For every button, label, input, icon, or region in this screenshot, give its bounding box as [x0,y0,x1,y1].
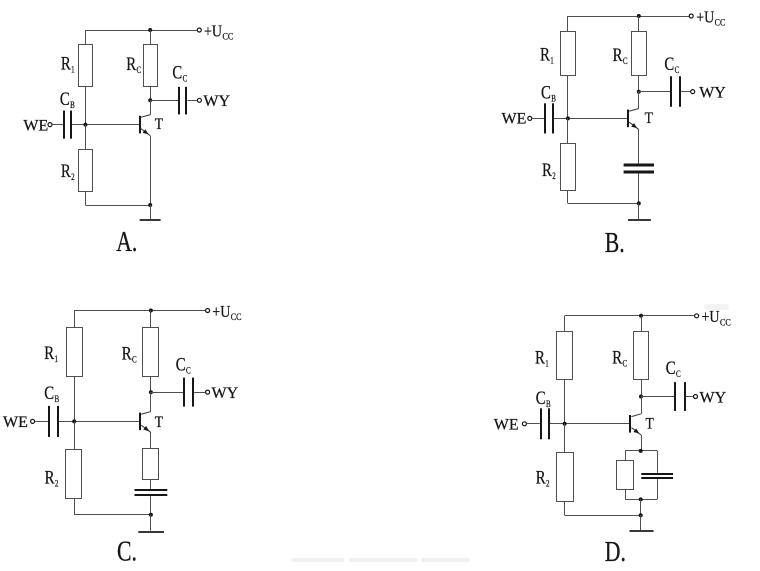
wire: parallel combo to bottom rail (D) [640,499,642,515]
transistor T (C): emitter stroke [141,425,151,432]
svg-text:WE: WE [23,117,48,134]
junction: emitter / bottom rail (B) [637,201,641,205]
svg-text:T: T [155,414,163,431]
svg-text:D.: D. [605,535,626,566]
wire: R1 bottom to base node (A) [85,86,87,125]
svg-text:C.: C. [117,534,137,566]
faint watermark remnant at bottom edge [292,558,470,562]
junction: top rail / Rc (B) [637,14,641,18]
svg-text:WY: WY [699,84,726,101]
junction: RE/CE top node (D) [639,449,643,453]
wire: Cc to WY terminal (A) [187,100,197,102]
resistor R2 (B) [561,144,576,191]
transistor T (B): base bar [627,110,629,128]
terminal +Ucc (A) [197,28,201,32]
wire: CE to bottom of parallel (D) [657,479,659,499]
transistor T (B): collector stroke [629,109,639,112]
ground (B) [628,219,651,221]
junction: collector node (D) [639,395,643,399]
wire: bottom rail to ground (B) [638,203,640,219]
wire: WE to Cb (C) [35,421,49,423]
junction: top rail / Rc (A) [148,28,152,32]
capacitor Cc (D) [674,382,676,411]
svg-text:B.: B. [605,226,625,259]
terminal +Ucc (C) [206,309,210,313]
resistor R1 (D) [557,332,573,380]
terminal WE (A) [48,123,52,127]
wire: right branch to CE (D) [657,451,659,473]
svg-text:T: T [645,110,653,127]
wire: emitter to RE (C) [150,433,152,449]
svg-text:WE: WE [502,111,527,128]
wire: top supply rail (A) [85,30,87,44]
wire: top supply rail (D) [564,316,566,332]
transistor T (C): collector stroke [141,412,151,415]
junction: collector node (A) [148,98,152,102]
capacitor CE (D) [641,473,673,475]
junction: base node (A) [83,123,87,127]
wire: R2 bottom to bottom rail (C) [74,499,76,515]
svg-text:WY: WY [700,389,727,406]
wire: WE to Cb (B) [532,118,544,120]
wire: top supply rail (C) [74,311,76,328]
wire: Cb to transistor base (B) [554,118,628,120]
resistor Rc (B) [632,32,647,76]
svg-text:WY: WY [203,93,230,110]
transistor T (C): base bar [139,413,141,431]
capacitor Cb (B) [544,103,546,133]
wire: collector node to transistor (A) [150,100,152,114]
ground (C) [138,531,164,533]
terminal WY (A) [197,98,201,102]
wire: Rc bottom to collector node (C) [150,376,152,392]
capacitor Cc (B) [670,76,672,107]
wire: collector node to Cc (D) [641,396,674,398]
svg-text:WY: WY [212,385,239,402]
resistor R1 (C) [67,328,83,377]
wire: Cb to transistor base (C) [59,421,140,423]
wire: emitter to RE/CE node (D) [641,435,643,451]
wire: Cc to WY terminal (D) [686,396,694,398]
wire: base node to R2 (D) [564,424,566,453]
transistor T (A): emitter arrowhead [143,129,149,134]
transistor T (A): base bar [139,116,141,134]
wire: top of parallel RE/CE (D) [625,450,657,452]
wire: base node to R2 (A) [85,125,87,150]
resistor RE (C) [143,449,159,480]
resistor RE (D) [617,461,634,490]
wire: WE to Cb (D) [527,423,540,425]
capacitor Cc (C) [183,378,185,407]
transistor T (C): emitter arrowhead [143,426,149,431]
wire: WE to Cb (A) [52,124,63,126]
svg-text:T: T [646,415,654,432]
terminal +Ucc (D) [695,314,699,318]
wire: collector node to transistor (C) [150,392,152,411]
resistor R1 (B) [561,32,576,76]
capacitor Cb (C) [48,406,50,437]
wire: bottom rail to ground (D) [640,515,642,531]
terminal WY (B) [691,90,695,94]
terminal WY (D) [694,395,698,399]
terminal +Ucc (B) [689,14,693,18]
wire: Cc to WY terminal (C) [194,392,205,394]
junction: top rail / Rc (D) [639,314,643,318]
terminal WY (C) [206,390,210,394]
transistor T (B): emitter arrowhead [631,123,637,128]
capacitor CE bypass (B) [624,164,654,167]
resistor Rc (D) [634,332,649,380]
wire: R1 bottom to base node (B) [567,76,569,119]
ground (A) [140,219,161,221]
terminal WE (B) [528,116,532,120]
wire: Cb to transistor base (D) [550,423,630,425]
resistor R2 (C) [66,450,82,499]
junction: RE/CE bottom node (D) [639,497,643,501]
capacitor CE (C) [135,489,168,491]
wire: CE to bottom rail (B) [638,173,640,203]
wire: left branch to RE (D) [625,451,627,461]
wire: Rc top drop (A) [150,30,152,44]
wire: Rc bottom to collector node (A) [150,86,152,100]
wire: base node to R2 (C) [74,421,76,449]
wire: RE to CE (C) [150,479,152,489]
wire: Rc top drop (C) [150,311,152,328]
wire: collector node to Cc (B) [639,91,670,93]
resistor Rc (A) [144,45,158,87]
wire: collector node to transistor (D) [641,397,643,414]
wire: bottom of parallel RE/CE (D) [625,499,657,501]
wire: R1 bottom to base node (D) [564,380,566,424]
wire: Rc top drop (D) [641,316,643,332]
svg-text:A.: A. [116,225,137,258]
wire: R2 bottom to bottom rail (A) [85,192,87,205]
wire: Rc bottom to collector node (D) [641,380,643,397]
wire: Rc top drop (B) [638,16,640,31]
svg-text:WE: WE [494,417,519,434]
wire: base node to R2 (B) [567,118,569,143]
junction: collector node (B) [637,90,641,94]
wire: R2 bottom to bottom rail (D) [564,501,566,515]
wire: RE to bottom of parallel (D) [625,489,627,499]
wire: bottom rail to ground (A) [150,205,152,219]
svg-text:T: T [155,116,163,133]
junction: top rail / Rc (C) [149,309,153,313]
resistor R2 (A) [79,150,93,192]
junction: base node (D) [563,422,567,426]
wire: bottom rail to ground (C) [150,515,152,531]
capacitor Cc (A) [178,87,180,115]
junction: base node (C) [72,419,76,423]
junction: collector node (C) [149,390,153,394]
wire: collector node to Cc (C) [151,392,183,394]
wire: R2 bottom to bottom rail (B) [567,190,569,203]
transistor T (D): collector stroke [631,414,641,417]
wire: CE to bottom rail (C) [150,496,152,515]
wire: emitter to bypass capacitor (B) [638,130,640,164]
transistor T (D): emitter arrowhead [633,428,639,433]
junction: emitter / bottom rail (C) [149,513,153,517]
transistor T (D): base bar [629,415,631,433]
faint smudge artifact right margin [704,304,729,310]
transistor T (B): emitter stroke [629,122,639,129]
wire: emitter to bottom rail (A) [150,136,152,205]
transistor T (A): collector stroke [141,115,151,118]
wire: Cc to WY terminal (B) [681,91,691,93]
ground (D) [630,530,654,532]
wire: R1 bottom to base node (C) [74,376,76,421]
capacitor Cb (A) [63,111,65,139]
capacitor Cb (D) [540,408,542,439]
junction: emitter / bottom rail (D) [639,513,643,517]
resistor R1 (A) [79,45,93,87]
resistor Rc (C) [143,328,159,377]
resistor R2 (D) [557,453,574,502]
wire: collector node to transistor (B) [638,92,640,109]
terminal WE (C) [31,419,35,423]
wire: top supply rail (B) [567,16,569,31]
svg-text:WE: WE [3,414,28,431]
wire: collector node to Cc (A) [150,100,178,102]
wire: Cb to transistor base (A) [72,124,139,126]
transistor T (D): emitter stroke [631,428,641,435]
junction: emitter / bottom rail (A) [148,203,152,207]
wire: Rc bottom to collector node (B) [638,76,640,92]
junction: base node (B) [566,116,570,120]
terminal WE (D) [522,422,526,426]
transistor T (A): emitter stroke [141,128,151,135]
